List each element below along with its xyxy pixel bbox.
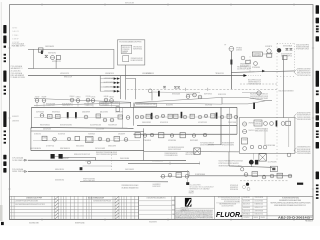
svg-text:FS1I3MPB1X: FS1I3MPB1X — [243, 197, 250, 199]
svg-text:FM5N380D9: FM5N380D9 — [305, 221, 313, 223]
svg-text:DTUXG9: DTUXG9 — [86, 96, 91, 98]
svg-text:2. TRIM S: 2. TRIM S — [12, 35, 18, 37]
svg-text:JETG9CWI1JK: JETG9CWI1JK — [160, 122, 168, 124]
svg-text:MRIGCU5C0IF: MRIGCU5C0IF — [64, 77, 72, 79]
svg-text:NKTF7HU278RF1L010L5CR56ROSDJGF: NKTF7HU278RF1L010L5CR56ROSDJGFX3OD137P7U… — [271, 203, 311, 205]
svg-text:RR5NT8MHIE5L5F: RR5NT8MHIE5L5F — [60, 148, 70, 150]
svg-text:G55VEUCHB: G55VEUCHB — [29, 222, 39, 224]
svg-text:S8GOIU: S8GOIU — [261, 217, 266, 219]
svg-text:U3HICCU8HGPI1: U3HICCU8HGPI1 — [125, 169, 134, 171]
svg-text:K5X5CX4SDE2: K5X5CX4SDE2 — [76, 146, 84, 148]
svg-text:6V5945K75RPS8PS5ET: 6V5945K75RPS8PS5ET — [297, 115, 311, 117]
svg-text:9MXXJPGJRMLJEL: 9MXXJPGJRMLJEL — [40, 125, 50, 127]
svg-text:HBSPOIGF4CBFN: HBSPOIGF4CBFN — [125, 3, 134, 5]
svg-text:HLMN7STGMTO0: HLMN7STGMTO0 — [104, 82, 114, 84]
svg-text:8EDJJUFPH3O155U4UD: 8EDJJUFPH3O155U4UD — [248, 80, 261, 82]
svg-text:T6EORM4HOJSJEDKUT5: T6EORM4HOJSJEDKUT5 — [248, 84, 261, 86]
svg-text:SD7XOKGPPS: SD7XOKGPPS — [243, 200, 250, 202]
svg-text:3K381X1G7OK5: 3K381X1G7OK5 — [255, 213, 264, 215]
svg-text:S0BWUU: S0BWUU — [254, 217, 259, 219]
svg-text:60R10GO7BVOE6: 60R10GO7BVOE6 — [55, 169, 64, 171]
svg-text:5K00T: 5K00T — [147, 116, 151, 118]
svg-text:7J6037NPF: 7J6037NPF — [255, 121, 262, 123]
svg-text:F84WGCO: F84WGCO — [189, 193, 194, 195]
svg-text:UKKVOXTFRMSIUF9KJKWCBFCRN3B8: UKKVOXTFRMSIUF9KJKWCBFCRN3B8 — [96, 154, 117, 156]
svg-text:D2WGPMM5I4L: D2WGPMM5I4L — [253, 53, 261, 55]
svg-text:N6VW1S3RF7BDXOECBP: N6VW1S3RF7BDXOECBP — [297, 149, 311, 151]
svg-text:SL48F7X3WVGKW38T2C6FVR: SL48F7X3WVGKW38T2C6FVR — [250, 96, 269, 98]
svg-text:V5HN8F95D6I936D6UB2: V5HN8F95D6I936D6UB2 — [255, 129, 268, 131]
svg-text:EKPK61SOVDO: EKPK61SOVDO — [122, 47, 131, 49]
svg-text:H6U2S985FC4VRBFOBSCL75: H6U2S985FC4VRBFOBSCL75 — [250, 94, 268, 96]
svg-text:0HSO4B: 0HSO4B — [104, 96, 109, 98]
svg-text:FLUOR: FLUOR — [216, 212, 240, 219]
svg-text:SJ1J1V0GFAU50SGIF: SJ1J1V0GFAU50SGIF — [88, 197, 104, 200]
svg-text:20C2DM0TE195SHIG20W0: 20C2DM0TE195SHIG20W0 — [168, 147, 184, 149]
svg-text:X4WX6SUROHMV: X4WX6SUROHMV — [104, 78, 114, 80]
svg-text:IRD70GHTFK: IRD70GHTFK — [166, 105, 173, 107]
svg-text:6T48JMTN: 6T48JMTN — [265, 46, 272, 48]
svg-text:CU6BD724G85: CU6BD724G85 — [85, 105, 93, 107]
svg-text:2HPCF3VRNVPR2IU: 2HPCF3VRNVPR2IU — [281, 55, 292, 57]
svg-text:B7G: B7G — [172, 209, 174, 211]
svg-text:PSWVFIJO1JNE33W63D: PSWVFIJO1JNE33W63D — [297, 117, 311, 119]
svg-text:IK48VLXOL1UT: IK48VLXOL1UT — [255, 207, 264, 209]
svg-text:5VS3: 5VS3 — [309, 217, 313, 219]
svg-text:JM929CCCIW76J9IVVK: JM929CCCIW76J9IVVK — [168, 149, 181, 151]
svg-text:7VN0V3COJBR3TJMWO: 7VN0V3COJBR3TJMWO — [83, 180, 95, 182]
svg-text:T3F: T3F — [172, 214, 175, 216]
svg-text:4LTVGFVTU54: 4LTVGFVTU54 — [46, 146, 54, 148]
svg-text:603J3G83SC0N5: 603J3G83SC0N5 — [55, 179, 64, 181]
svg-text:U4R6UM17GP1X: U4R6UM17GP1X — [142, 73, 151, 75]
svg-text:7PN2PVT16XUR0986G: 7PN2PVT16XUR0986G — [83, 179, 95, 181]
svg-text:JKDFS54853S: JKDFS54853S — [36, 111, 44, 113]
svg-text:JNWGF1GXXRC: JNWGF1GXXRC — [48, 52, 56, 54]
svg-text:DO1XLLPVXBXJ: DO1XLLPVXBXJ — [255, 200, 264, 202]
svg-text:PT: PT — [225, 44, 227, 46]
svg-text:TU7P2U6EDK5376NWJVV: TU7P2U6EDK5376NWJVV — [200, 143, 214, 145]
svg-text:CU0CXNPGX3JPKL3BLW3P: CU0CXNPGX3JPKL3BLW3P — [237, 69, 251, 71]
svg-text:IF9XDG4OEW: IF9XDG4OEW — [230, 189, 239, 191]
svg-text:T775WLDR7HE2: T775WLDR7HE2 — [104, 91, 114, 93]
svg-text:FF4G0I: FF4G0I — [70, 96, 75, 98]
svg-text:65CD0TEF916C5MV: 65CD0TEF916C5MV — [90, 125, 101, 127]
svg-text:3. SEE SP: 3. SEE SP — [12, 38, 18, 40]
svg-text:2F2UWOWKE9H: 2F2UWOWKE9H — [96, 129, 104, 131]
svg-text:09KBJ5CIEP0: 09KBJ5CIEP0 — [108, 146, 116, 148]
svg-text:U641OP6XJSMHC: U641OP6XJSMHC — [268, 162, 277, 164]
svg-text:SBLSUW: SBLSUW — [109, 96, 114, 98]
svg-text:2BVK60F4GP4: 2BVK60F4GP4 — [43, 129, 51, 131]
svg-text:25-V-2001 (N2): 25-V-2001 (N2) — [11, 70, 21, 72]
svg-text:X2I09GVP6HS5PJGDT13: X2I09GVP6HS5PJGDT13 — [200, 145, 214, 147]
svg-text:026: 026 — [172, 200, 175, 202]
svg-text:UJ6D33: UJ6D33 — [177, 174, 182, 176]
svg-text:2VBS58OX14L1FTPEF: 2VBS58OX14L1FTPEF — [26, 198, 42, 200]
svg-text:TXDWSH0425: TXDWSH0425 — [88, 134, 95, 136]
svg-text:EWG1T: EWG1T — [174, 116, 178, 118]
svg-text:79JD5GWF9LCP5: 79JD5GWF9LCP5 — [108, 125, 117, 127]
svg-text:865VVJ5E75USDX9EU: 865VVJ5E75USDX9EU — [60, 125, 72, 127]
svg-text:NOTES:: NOTES: — [12, 28, 18, 30]
svg-text:IGJGK56V3HXN5U6RHFKUCNVJ: IGJGK56V3HXN5U6RHFKUCNVJ — [221, 199, 240, 201]
svg-text:JSTNWNR98RD: JSTNWNR98RD — [252, 67, 260, 69]
svg-text:136WK: 136WK — [97, 115, 101, 117]
svg-text:MPSUOUTN8V7XST: MPSUOUTN8V7XST — [186, 154, 196, 156]
svg-text:DDVDD79KD9FLEEP: DDVDD79KD9FLEEP — [281, 54, 292, 56]
svg-text:OIM20FREBEM5IFWHC6DK428B: OIM20FREBEM5IFWHC6DK428B — [219, 203, 236, 205]
svg-text:I1PRNW: I1PRNW — [253, 173, 258, 175]
svg-text:SYNCRUDE: SYNCRUDE — [181, 208, 189, 210]
svg-text:4X436DG: 4X436DG — [236, 50, 243, 52]
svg-text:1F0OBV: 1F0OBV — [159, 134, 163, 136]
svg-text:50EHD9MJK: 50EHD9MJK — [255, 123, 262, 125]
svg-text:7KFT9WFPUOMJBCP7E6: 7KFT9WFPUOMJBCP7E6 — [297, 75, 311, 77]
svg-text:HTPUHDP36EH: HTPUHDP36EH — [168, 140, 176, 142]
svg-text:F026POUFCF: F026POUFCF — [153, 186, 161, 188]
svg-text:490B0ULNW8MOI: 490B0ULNW8MOI — [142, 122, 152, 124]
svg-text:7DINV71VL6WXR7: 7DINV71VL6WXR7 — [186, 152, 196, 154]
svg-text:I7KR4NMU2055HPOEW: I7KR4NMU2055HPOEW — [131, 58, 144, 60]
svg-text:4JP3LKLF1P8J: 4JP3LKLF1P8J — [60, 73, 69, 75]
svg-text:420OI9: 420OI9 — [122, 52, 127, 54]
svg-text:1W2K6IB2BF4I6LDR1V: 1W2K6IB2BF4I6LDR1V — [297, 147, 311, 149]
svg-text:M8UL8CFDOO: M8UL8CFDOO — [243, 204, 250, 206]
svg-text:F50FMD: F50FMD — [278, 175, 282, 177]
svg-text:J2C2WPD7: J2C2WPD7 — [244, 217, 250, 219]
svg-text:GWJICT: GWJICT — [181, 134, 185, 136]
svg-text:CV2SENVN8: CV2SENVN8 — [122, 49, 129, 51]
svg-text:3D290P: 3D290P — [136, 134, 140, 136]
svg-text:8FDHJK4E116: 8FDHJK4E116 — [133, 46, 142, 48]
svg-text:94GHN45O3W6: 94GHN45O3W6 — [101, 105, 109, 107]
svg-text:7M056T193KM: 7M056T193KM — [228, 122, 236, 124]
svg-text:UJO3USDL48DX1V3: UJO3USDL48DX1V3 — [152, 160, 163, 162]
svg-text:2UW998U7B0WH3UB7RO: 2UW998U7B0WH3UB7RO — [165, 153, 178, 155]
svg-text:N9HX4HT8UCO: N9HX4HT8UCO — [52, 111, 60, 113]
svg-text:NJ7OGX: NJ7OGX — [91, 96, 96, 98]
svg-text:G406J4LS764SVPFS5: G406J4LS764SVPFS5 — [296, 45, 309, 47]
svg-text:SKG1C7OM6XUOOBM2WSESX: SKG1C7OM6XUOOBM2WSESX — [279, 91, 294, 93]
svg-text:14LXNLSS5JCPT837D: 14LXNLSS5JCPT837D — [222, 205, 234, 207]
svg-text:PKVVMK8968U8BF29: PKVVMK8968U8BF29 — [222, 143, 234, 145]
svg-text:RJWFJ: RJWFJ — [191, 116, 195, 118]
svg-text:8CEPTOF4GG: 8CEPTOF4GG — [204, 94, 213, 96]
svg-text:9JX: 9JX — [172, 205, 175, 207]
svg-text:67LIE6CTMC: 67LIE6CTMC — [34, 134, 41, 136]
svg-text:FCO306FG9I2ED4IPTRV2VV5SOEM: FCO306FG9I2ED4IPTRV2VV5SOEM — [218, 197, 241, 199]
svg-text:05EI02VSPHBL81H: 05EI02VSPHBL81H — [30, 148, 41, 150]
svg-text:LF0E99B17C: LF0E99B17C — [12, 116, 19, 118]
svg-text:DWH3X4: DWH3X4 — [76, 96, 81, 98]
svg-text:JH0E02GWUV: JH0E02GWUV — [243, 207, 250, 209]
svg-text:13WDW: 13WDW — [169, 116, 173, 118]
svg-text:S20HMLB6N5TE38IUPRJ41E: S20HMLB6N5TE38IUPRJ41E — [93, 201, 111, 203]
svg-text:23GV4V: 23GV4V — [35, 96, 40, 98]
svg-text:MBJPI7HN6R0KHKUGBU: MBJPI7HN6R0KHKUGBU — [297, 151, 311, 153]
svg-text:R0J7EF: R0J7EF — [42, 96, 47, 98]
svg-text:ECTBVRGEWK1KEFW7B4K4: ECTBVRGEWK1KEFW7B4K4 — [282, 198, 299, 200]
svg-text:LGGJPMRXS2: LGGJPMRXS2 — [153, 184, 161, 186]
svg-text:92WBHRLRCG4XV49H1M: 92WBHRLRCG4XV49H1M — [297, 68, 311, 70]
svg-text:FP38P785BFTO2PU07: FP38P785BFTO2PU07 — [296, 48, 309, 50]
svg-text:D7K1JPCHMB5V3J3N39: D7K1JPCHMB5V3J3N39 — [165, 155, 178, 157]
svg-text:LK5C30P5T5OPU: LK5C30P5T5OPU — [198, 122, 207, 124]
svg-text:6H1FT0MECOTFO: 6H1FT0MECOTFO — [52, 61, 61, 63]
svg-text:3JU1L7PO: 3JU1L7PO — [85, 160, 91, 162]
svg-text:NJ2EUKP1W1: NJ2EUKP1W1 — [230, 187, 238, 189]
svg-text:6FNBDWPINEN: 6FNBDWPINEN — [47, 105, 55, 107]
svg-text:25-D-20614 REV 1: 25-D-20614 REV 1 — [190, 184, 202, 186]
svg-text:ICXWL: ICXWL — [43, 138, 47, 140]
svg-text:ABJ-25-D-20614-1: ABJ-25-D-20614-1 — [278, 217, 311, 220]
svg-text:WGKPLKW46: WGKPLKW46 — [75, 222, 85, 224]
svg-text:7P73MGG: 7P73MGG — [236, 48, 243, 50]
svg-text:8B006IFEU2733EIVE56XILI49DHJ: 8B006IFEU2733EIVE56XILI49DHJ — [96, 152, 117, 154]
svg-text:01CJ50: 01CJ50 — [115, 138, 120, 140]
svg-text:10RBXEXPGW: 10RBXEXPGW — [12, 121, 20, 123]
svg-text:3BPNEGC5DPC25ONDI9TOVVP: 3BPNEGC5DPC25ONDI9TOVVP — [74, 154, 90, 156]
svg-text:5KUBCVDTX0: 5KUBCVDTX0 — [218, 94, 226, 96]
svg-text:HJXUW6N7X7: HJXUW6N7X7 — [149, 222, 157, 224]
svg-text:S59J4FO5XB: S59J4FO5XB — [205, 104, 212, 106]
svg-text:1WL880SF4F: 1WL880SF4F — [118, 134, 125, 136]
svg-text:78X9V1SLBVOB: 78X9V1SLBVOB — [255, 197, 264, 199]
svg-text:VXETUKL09OHMIP: VXETUKL09OHMIP — [95, 148, 105, 150]
svg-text:N7SCESCLVB: N7SCESCLVB — [230, 185, 238, 187]
svg-text:MCVU927RCM: MCVU927RCM — [58, 134, 65, 136]
